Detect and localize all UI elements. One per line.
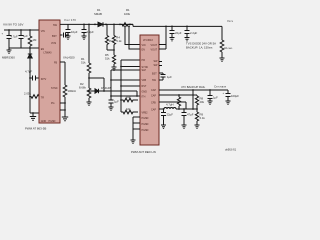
- text TVS note: [186, 42, 216, 50]
- svg-text:PWM AT 863-5B: PWM AT 863-5B: [25, 127, 46, 131]
- svg-text:2.2µF: 2.2µF: [190, 31, 197, 35]
- resistor R5 51k lower: [105, 53, 117, 70]
- wire SW pin stubs U2: [159, 62, 162, 66]
- wire U2 row y86: [121, 85, 140, 87]
- svg-text:PWM ANT RED LIN: PWM ANT RED LIN: [131, 150, 156, 154]
- svg-text:10µF: 10µF: [71, 30, 78, 34]
- node backup rail label: [181, 85, 227, 90]
- capacitor C8 1uF: [208, 89, 219, 104]
- svg-text:VIN: VIN: [41, 30, 45, 33]
- wire cap sense rail: [159, 95, 197, 96]
- svg-text:LT8640: LT8640: [44, 52, 53, 55]
- svg-text:CAP: CAP: [151, 95, 156, 98]
- svg-text:1µF: 1µF: [114, 100, 119, 104]
- resistor R-TR 2.05k: [24, 92, 39, 99]
- resistor R4 5.1k upper: [112, 24, 122, 56]
- svg-text:100µF: 100µF: [231, 94, 239, 98]
- caption right figure: [131, 150, 156, 154]
- svg-text:dn563 f01: dn563 f01: [225, 149, 237, 152]
- diode D1 SMAB series: [94, 8, 107, 27]
- svg-text:10k: 10k: [126, 107, 131, 111]
- wire input rail: [4, 29, 39, 31]
- svg-text:2.2µF: 2.2µF: [87, 30, 94, 34]
- wire bus y60: [121, 59, 140, 61]
- svg-text:10k: 10k: [126, 95, 131, 99]
- svg-text:VIN: VIN: [142, 44, 146, 47]
- resistor R9 5.1k: [195, 112, 206, 128]
- svg-text:2.05k: 2.05k: [24, 92, 31, 96]
- capacitor C11 ITH 1uF: [109, 96, 120, 110]
- svg-text:4.7µH: 4.7µH: [166, 103, 174, 107]
- svg-text:PGND: PGND: [142, 117, 149, 120]
- svg-text:VOUT: VOUT: [151, 44, 158, 47]
- ground left bus: [30, 113, 36, 120]
- resistor R1 series 100k: [119, 8, 131, 26]
- capacitor C-STORAGE 100uF: [223, 90, 240, 104]
- capacitor C-BST 0.1uF: [60, 33, 69, 38]
- svg-text:VOUT: VOUT: [151, 49, 158, 52]
- capacitor C7 2.2uF: [185, 26, 198, 41]
- svg-text:100k: 100k: [124, 12, 131, 16]
- svg-text:100kΩ: 100kΩ: [68, 89, 76, 93]
- svg-text:BST: BST: [152, 73, 157, 76]
- svg-text:1µF: 1µF: [213, 96, 218, 100]
- node dots input rail: [8, 29, 31, 49]
- wire backup rail: [159, 89, 228, 91]
- node VIN input label: [3, 23, 24, 27]
- svg-text:51k: 51k: [105, 57, 110, 61]
- wire U2 row y96: [111, 95, 140, 97]
- resistor R7 rail2 to cap node: [177, 94, 180, 110]
- wire left bus vertical: [29, 64, 31, 113]
- resistor divider RP1 51k: [81, 24, 91, 89]
- wire U2 VIN connect: [125, 26, 140, 44]
- node VOUT label mid: [64, 18, 76, 22]
- svg-text:51k: 51k: [81, 61, 86, 65]
- capacitor C-INTVCC 4.7uF: [25, 70, 39, 81]
- capacitor C-BST2 1uF: [159, 73, 172, 80]
- resistor R-VFB 10k: [121, 107, 138, 114]
- svg-text:20k: 20k: [200, 100, 205, 104]
- wire EN pin stub: [30, 47, 39, 49]
- wire mid bus y70/y80: [111, 70, 140, 96]
- svg-text:BACKUP: 1A, 150ms: BACKUP: 1A, 150ms: [186, 46, 213, 50]
- capacitor C9 22uF: [161, 108, 173, 128]
- svg-text:PFI: PFI: [142, 59, 146, 62]
- svg-text:1N4148: 1N4148: [101, 86, 111, 90]
- IC U1 buck regulator LT8640: [39, 20, 60, 123]
- svg-text:CAP: CAP: [151, 89, 156, 92]
- capacitor C1 4.7uF input bulk: [2, 30, 18, 48]
- resistor R8 20k: [195, 96, 204, 112]
- resistor R-ITH 10k: [120, 95, 138, 102]
- svg-text:MBRS360: MBRS360: [2, 56, 15, 60]
- svg-text:TR: TR: [41, 97, 44, 100]
- wire mid vertical bus: [120, 60, 122, 112]
- svg-text:5.1k: 5.1k: [200, 116, 206, 120]
- resistor R-EN 1M: [28, 30, 37, 52]
- wire U2 EN connect: [129, 26, 140, 49]
- resistor divider RP2 8.66k: [79, 77, 92, 105]
- svg-text:22µF: 22µF: [167, 113, 174, 117]
- svg-text:SMAB: SMAB: [94, 12, 102, 16]
- capacitor C10 47uF: [182, 108, 194, 128]
- capacitor C3 10uF: [66, 24, 78, 39]
- svg-text:RST: RST: [142, 85, 147, 88]
- svg-text:8.66k: 8.66k: [79, 86, 86, 90]
- capacitor C6 22uF: [170, 26, 182, 41]
- node VSYS label: [227, 19, 234, 23]
- svg-text:1M: 1M: [33, 38, 38, 42]
- svg-text:47V BACKUP RAIL: 47V BACKUP RAIL: [181, 85, 206, 89]
- svg-text:PGND: PGND: [142, 129, 149, 132]
- svg-text:PGND: PGND: [49, 120, 56, 123]
- resistor RLOAD: [220, 26, 233, 61]
- inductor L2 4.7uH: [159, 103, 193, 110]
- svg-text:47µF: 47µF: [187, 113, 194, 117]
- svg-text:SLP: SLP: [142, 69, 147, 72]
- svg-text:CFB: CFB: [151, 102, 156, 105]
- wire top rail to VSYS: [129, 24, 222, 26]
- text corner code: [225, 149, 237, 152]
- caption left figure: [25, 127, 46, 131]
- wire GND pin stub: [30, 112, 39, 114]
- svg-text:CAP: CAP: [151, 109, 156, 112]
- IC U2 backup controller LTC3643: [140, 35, 159, 145]
- svg-text:SYNC: SYNC: [51, 87, 58, 90]
- svg-text:VFB: VFB: [142, 79, 147, 82]
- wire bus y66.5: [121, 66, 140, 68]
- svg-text:BST: BST: [52, 35, 57, 38]
- svg-text:EN: EN: [142, 49, 146, 52]
- svg-text:5.1k: 5.1k: [116, 39, 122, 43]
- svg-text:VFB2: VFB2: [142, 112, 149, 115]
- svg-text:ITH: ITH: [142, 96, 146, 99]
- svg-text:LTC3643: LTC3643: [143, 39, 153, 42]
- diode D2 MBRS360: [2, 52, 32, 64]
- svg-text:VOUT 17V: VOUT 17V: [64, 18, 76, 22]
- svg-text:22µF: 22µF: [175, 31, 182, 35]
- wire U2 VOUT pins to rail: [159, 26, 166, 49]
- svg-text:PGND: PGND: [142, 123, 149, 126]
- resistor R-FB 100k: [60, 62, 76, 121]
- wire CFB tap: [159, 102, 197, 109]
- svg-text:4.7µF: 4.7µF: [25, 70, 32, 74]
- ground input: [7, 48, 12, 53]
- wire SW/VOUT rail: [60, 23, 133, 25]
- svg-text:PG: PG: [51, 102, 55, 105]
- svg-text:VOS: VOS: [51, 42, 56, 45]
- wire U2 PGND bus: [133, 117, 140, 140]
- svg-text:GND: GND: [142, 91, 148, 94]
- svg-text:GND: GND: [41, 120, 47, 123]
- wire input cap bottom bus: [9, 47, 30, 49]
- svg-text:1µF: 1µF: [167, 75, 172, 79]
- svg-text:XAL4020: XAL4020: [63, 56, 75, 60]
- svg-text:4.7µF: 4.7µF: [11, 35, 18, 39]
- svg-text:FB: FB: [54, 62, 57, 65]
- capacitor C4 2.2uF: [82, 24, 94, 40]
- svg-text:INTV: INTV: [41, 78, 47, 81]
- inductor L1 label XAL4020: [63, 56, 75, 60]
- resistor R3 1M: [105, 24, 114, 50]
- diode D3 1N4148 wire: [89, 86, 137, 96]
- wire PFI tap to U2: [89, 78, 104, 91]
- svg-text:1µF: 1µF: [23, 34, 28, 38]
- capacitor C2 1uF input ceramic: [19, 30, 29, 48]
- wire L2 to backup rail: [192, 90, 194, 109]
